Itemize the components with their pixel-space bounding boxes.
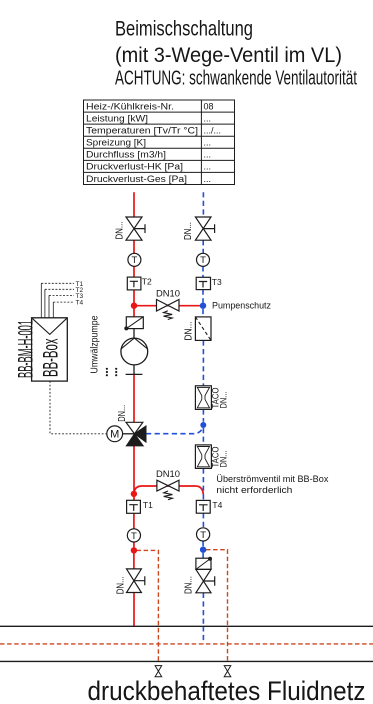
svg-text:08: 08 <box>204 101 214 111</box>
svg-text:DN...: DN... <box>184 322 195 341</box>
svg-text:Beimischschaltung: Beimischschaltung <box>115 18 253 41</box>
svg-text:ACHTUNG: schwankende Ventilaut: ACHTUNG: schwankende Ventilautorität <box>115 67 357 89</box>
svg-text:...: ... <box>204 114 212 124</box>
svg-text:DN...: DN... <box>117 405 128 422</box>
svg-text:Leistung [kW]: Leistung [kW] <box>86 114 148 124</box>
svg-text:Pumpenschutz: Pumpenschutz <box>212 301 271 312</box>
svg-text:T: T <box>200 255 206 266</box>
svg-text:Durchfluss [m3/h]: Durchfluss [m3/h] <box>86 150 166 160</box>
svg-text:Überströmventil mit BB-Box: Überströmventil mit BB-Box <box>216 474 329 484</box>
svg-text:T1: T1 <box>143 500 153 510</box>
svg-text:T4: T4 <box>76 300 84 307</box>
svg-text:Temperaturen [Tv/Tr °C]: Temperaturen [Tv/Tr °C] <box>86 126 198 136</box>
svg-text:...: ... <box>204 162 212 172</box>
svg-text:T2: T2 <box>142 277 152 287</box>
svg-text:...: ... <box>204 150 212 160</box>
svg-text:DN...: DN... <box>116 576 127 594</box>
svg-text:...: ... <box>204 138 212 148</box>
svg-text:(mit 3-Wege-Ventil im VL): (mit 3-Wege-Ventil im VL) <box>115 44 342 67</box>
svg-text:BB-BM-H-001: BB-BM-H-001 <box>14 320 37 378</box>
svg-text:BB-Box: BB-Box <box>39 338 62 377</box>
svg-text:T4: T4 <box>212 500 222 510</box>
svg-text:Druckverlust-HK [Pa]: Druckverlust-HK [Pa] <box>86 162 183 172</box>
svg-text:DN10: DN10 <box>156 469 180 480</box>
svg-text:T: T <box>131 531 137 542</box>
svg-text:T3: T3 <box>212 277 222 287</box>
svg-text:DN10: DN10 <box>156 288 180 299</box>
svg-text:Druckverlust-Ges [Pa]: Druckverlust-Ges [Pa] <box>86 174 187 184</box>
svg-text:.../...: .../... <box>204 126 222 136</box>
svg-text:Umwälzpumpe: Umwälzpumpe <box>90 315 101 373</box>
svg-text:DN...: DN... <box>115 222 126 240</box>
svg-text:nicht erforderlich: nicht erforderlich <box>216 485 292 495</box>
svg-text:T: T <box>131 255 137 266</box>
svg-text:T: T <box>200 530 206 541</box>
svg-text:Spreizung [K]: Spreizung [K] <box>86 138 146 148</box>
svg-text:DN...: DN... <box>219 451 229 468</box>
svg-text:DN...: DN... <box>184 576 195 594</box>
svg-text:DN...: DN... <box>183 222 194 240</box>
svg-text:...: ... <box>204 174 212 184</box>
svg-text:M: M <box>110 429 119 441</box>
svg-text:druckbehaftetes Fluidnetz: druckbehaftetes Fluidnetz <box>88 676 366 704</box>
svg-text:DN...: DN... <box>219 392 229 409</box>
svg-text:Heiz-/Kühlkreis-Nr.: Heiz-/Kühlkreis-Nr. <box>86 101 174 111</box>
